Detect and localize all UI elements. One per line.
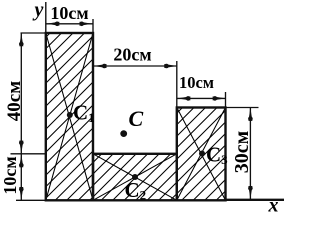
dimension 10cm right: line xyxy=(177,97,226,99)
dimension 10cm top: line xyxy=(46,23,93,25)
dimension 40cm: top arrow xyxy=(19,33,23,46)
centroid C1 dot xyxy=(67,112,73,118)
dimension 10cm right: extension line right xyxy=(225,92,227,108)
svg-text:10см: 10см xyxy=(0,156,20,194)
dimension 40cm: top extension line xyxy=(21,32,46,34)
svg-text:30см: 30см xyxy=(231,131,253,174)
rectangle 3 outline xyxy=(177,108,226,201)
rectangle 2 outline xyxy=(93,154,177,201)
rectangle 1 outline xyxy=(46,33,93,200)
rectangle 1 diagonal B xyxy=(46,33,93,200)
dimension 20cm: line xyxy=(93,65,177,67)
svg-text:C: C xyxy=(129,106,144,131)
dimension 10cm top: right arrow xyxy=(80,22,93,26)
dimension 10cm bottom-left: extension line xyxy=(11,153,46,155)
rectangle 3 diagonal B xyxy=(177,108,226,201)
rectangle 2 diagonal B xyxy=(93,154,177,201)
dimension 40cm: bottom arrow xyxy=(19,141,23,154)
dimension 10cm bottom-left: line xyxy=(20,154,22,201)
dimension 20cm: left arrow xyxy=(94,64,107,68)
svg-text:x: x xyxy=(268,195,279,215)
dimension 20cm: right arrow xyxy=(164,64,177,68)
svg-text:y: y xyxy=(33,0,44,21)
dimension 10cm top: left arrow xyxy=(46,22,59,26)
rectangle 1 diagonal A xyxy=(46,33,93,200)
rectangle 3 (right bar) hatch fill xyxy=(177,108,226,201)
centroid C2 dot xyxy=(132,174,138,180)
rectangle 2 diagonal A xyxy=(93,154,177,201)
dimension 10cm right: right arrow xyxy=(213,96,226,100)
dimension 10cm right: left arrow xyxy=(177,96,190,100)
rectangle 2 (bottom strip) hatch fill xyxy=(93,154,177,201)
y axis xyxy=(45,2,47,33)
dimension 30cm: top extension line xyxy=(226,107,259,109)
dimension 10cm top: extension line right xyxy=(92,19,94,33)
dimension 20cm: extension line right xyxy=(176,61,178,108)
svg-text:10см: 10см xyxy=(50,3,88,23)
dimension 10cm bottom-left: bottom arrow xyxy=(19,187,23,200)
dimension 40cm left: line xyxy=(20,33,22,154)
svg-text:10см: 10см xyxy=(179,73,214,92)
dimension 30cm right: line xyxy=(249,108,251,200)
rectangle 3 diagonal A xyxy=(177,108,226,201)
svg-text:20см: 20см xyxy=(113,45,151,65)
dimension 10cm bottom-left: top arrow xyxy=(19,154,23,167)
bottom extension line (left of figure) xyxy=(16,199,46,201)
x axis xyxy=(226,199,285,201)
rectangle 1 (left bar) hatch fill xyxy=(46,33,93,200)
dimension 30cm: top arrow xyxy=(248,108,252,121)
centroid C3 dot xyxy=(199,151,205,157)
svg-text:40см: 40см xyxy=(4,81,25,121)
centroid C dot xyxy=(120,130,127,137)
dimension 30cm: bottom arrow xyxy=(248,186,252,199)
